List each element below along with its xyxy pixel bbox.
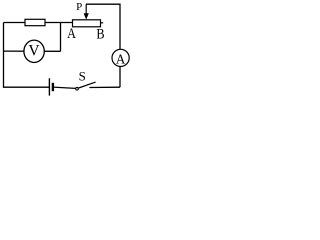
- battery short plate (negative): [52, 83, 54, 91]
- wire wiper to right side (top): [86, 4, 120, 87]
- resistor R: [25, 19, 45, 25]
- potentiometer P body: [73, 20, 101, 27]
- svg-text:A: A: [116, 52, 126, 67]
- voltmeter V: [24, 40, 44, 62]
- switch S pivot: [76, 87, 79, 90]
- svg-text:S: S: [79, 70, 86, 84]
- wire left side (top-left corner down to bottom-left corner): [4, 23, 50, 88]
- wire top (left corner to potentiometer terminal A): [4, 22, 73, 24]
- wire battery to switch: [53, 87, 76, 88]
- wire voltmeter branch horizontal: [4, 50, 61, 52]
- svg-text:P: P: [76, 1, 82, 13]
- svg-text:B: B: [96, 26, 104, 42]
- svg-text:A: A: [67, 26, 76, 42]
- svg-text:V: V: [28, 43, 40, 60]
- battery long plate (positive): [48, 78, 50, 95]
- potentiometer wiper arrowhead: [84, 13, 89, 19]
- ammeter A: [112, 49, 129, 67]
- potentiometer wiper arrow shaft: [85, 4, 87, 14]
- wire voltmeter branch vertical (junction on top wire down): [60, 23, 62, 52]
- wire switch to bottom-right corner: [89, 86, 120, 88]
- potentiometer terminal B stub: [101, 22, 104, 24]
- switch S lever: [79, 82, 96, 88]
